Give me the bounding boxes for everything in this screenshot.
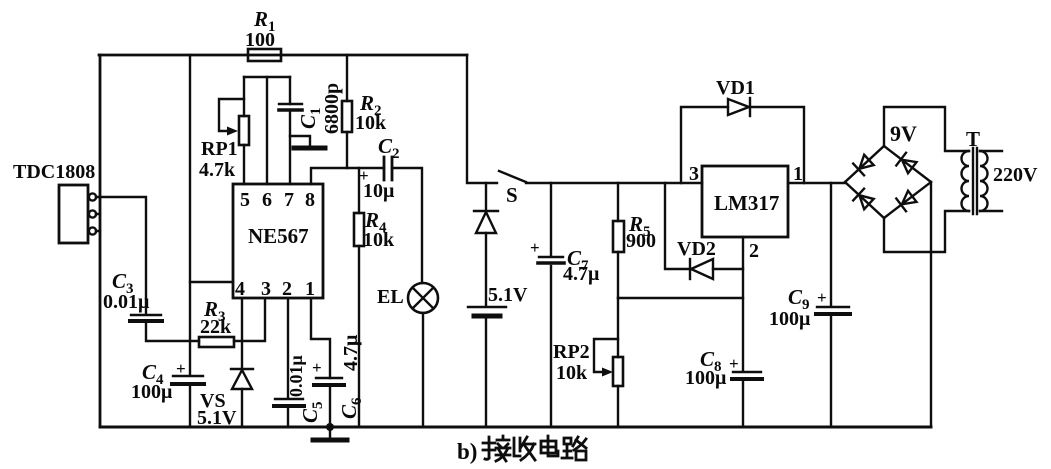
- wire LM317 output to bridge: [788, 182, 845, 184]
- svg-text:10k: 10k: [556, 362, 588, 384]
- caption hanzi shou: [514, 437, 535, 460]
- svg-text:+: +: [312, 358, 322, 377]
- capacitor C3: [131, 314, 161, 316]
- svg-text:4.7μ: 4.7μ: [340, 334, 362, 371]
- svg-text:100μ: 100μ: [131, 381, 173, 403]
- resistor R5: [617, 183, 619, 298]
- wire bridge top AC route: [884, 107, 969, 151]
- caption hanzi jie: [483, 436, 510, 461]
- bridge diode top-right: [896, 153, 917, 174]
- capacitor C1: [289, 77, 291, 184]
- bridge rectifier frame: [845, 146, 931, 218]
- wire left vertical rail: [99, 55, 102, 427]
- svg-text:10k: 10k: [355, 112, 387, 134]
- capacitor C6: [316, 377, 342, 379]
- wire TDC top pin to C3: [96, 197, 146, 313]
- svg-text:5: 5: [240, 189, 250, 211]
- svg-text:7: 7: [284, 189, 294, 211]
- wire second vertical branch: [189, 55, 191, 427]
- diode VD2: [665, 183, 743, 269]
- svg-text:10μ: 10μ: [363, 180, 395, 202]
- wire top supply rail: [99, 54, 467, 57]
- resistor R4: [358, 168, 360, 427]
- wire pin6 vertical: [266, 77, 268, 184]
- wire pin8 row: [311, 168, 384, 184]
- svg-text:C6: C6: [337, 397, 365, 419]
- resistor R1: [248, 49, 281, 61]
- battery 5.1V: [468, 306, 506, 308]
- wire pin5 vertical: [243, 77, 245, 184]
- wire R5 to pin2 row: [618, 297, 743, 299]
- svg-text:VD1: VD1: [716, 77, 755, 99]
- capacitor C9: [830, 183, 832, 427]
- ground pin7 stub: [290, 136, 310, 146]
- wire TDC1808 pin stubs: [96, 214, 100, 231]
- svg-text:RP1: RP1: [201, 138, 238, 160]
- svg-text:+: +: [176, 359, 186, 378]
- svg-text:6: 6: [262, 189, 272, 211]
- resistor R3: [199, 337, 234, 347]
- zener diode 5.1V branch: [474, 210, 498, 212]
- wire pin4 side lead: [190, 281, 233, 283]
- svg-text:3: 3: [689, 163, 699, 185]
- svg-text:5.1V: 5.1V: [488, 284, 528, 306]
- wire timing top link: [244, 76, 290, 78]
- svg-text:0.01μ: 0.01μ: [286, 355, 306, 397]
- wire pin2 LM317 vertical: [742, 237, 744, 371]
- bridge diode bottom-left: [853, 189, 874, 210]
- caption hanzi lu: [562, 437, 586, 460]
- svg-text:4.7μ: 4.7μ: [563, 263, 600, 285]
- wire R3 right to pin 3 of NE567: [234, 299, 265, 341]
- svg-text:1: 1: [305, 278, 315, 300]
- capacitor C8: [733, 371, 761, 373]
- switch S: [499, 171, 526, 182]
- capacitor C4: [173, 375, 203, 377]
- svg-text:C2: C2: [378, 134, 400, 162]
- svg-text:RP2: RP2: [553, 341, 590, 363]
- node main ground junction: [326, 423, 334, 431]
- lamp EL: [408, 283, 438, 313]
- svg-text:22k: 22k: [200, 316, 232, 338]
- svg-text:2: 2: [749, 240, 759, 262]
- svg-text:VD2: VD2: [677, 238, 716, 260]
- svg-text:4: 4: [235, 278, 245, 300]
- wire bridge DC minus: [930, 182, 932, 427]
- transducer TDC1808: [59, 185, 88, 243]
- bridge diode top-left: [853, 154, 874, 175]
- wire mid bus: [526, 182, 702, 184]
- svg-text:100μ: 100μ: [769, 308, 811, 330]
- svg-text:2: 2: [282, 278, 292, 300]
- svg-text:5.1V: 5.1V: [197, 407, 237, 429]
- bridge diode bottom-right: [896, 190, 917, 211]
- potentiometer RP2: [617, 298, 619, 427]
- svg-text:b): b): [457, 439, 477, 464]
- svg-text:0.01μ: 0.01μ: [103, 291, 150, 313]
- svg-text:T: T: [966, 127, 980, 151]
- svg-text:100: 100: [245, 29, 275, 51]
- svg-text:S: S: [506, 183, 518, 207]
- svg-text:LM317: LM317: [714, 191, 779, 215]
- wire pin1 jog: [311, 299, 330, 378]
- wire lamp to rail: [422, 313, 424, 427]
- wire bridge bottom AC route: [884, 211, 969, 252]
- svg-text:220V: 220V: [993, 164, 1038, 186]
- resistor R2: [346, 55, 348, 168]
- regulator LM317: [702, 166, 788, 237]
- capacitor C7: [550, 183, 552, 427]
- caption hanzi dian: [541, 436, 558, 456]
- op-amp U1 NE567: [233, 184, 323, 298]
- capacitor C5: [275, 398, 303, 400]
- wire pin2 vertical: [287, 299, 289, 398]
- svg-text:900: 900: [626, 230, 656, 252]
- svg-text:TDC1808: TDC1808: [13, 161, 95, 183]
- svg-text:3: 3: [261, 278, 271, 300]
- svg-text:1: 1: [793, 163, 803, 185]
- capacitor C2: [384, 157, 392, 180]
- svg-text:8: 8: [305, 189, 315, 211]
- wire right drop from rail: [467, 55, 497, 183]
- zener VS: [241, 299, 243, 427]
- svg-text:4.7k: 4.7k: [199, 159, 236, 181]
- wire C3 bottom to R3 row: [146, 323, 199, 341]
- svg-text:100μ: 100μ: [685, 367, 727, 389]
- transformer T: [962, 151, 969, 211]
- svg-text:NE567: NE567: [248, 224, 309, 248]
- svg-text:6800p: 6800p: [321, 83, 343, 134]
- svg-text:+: +: [817, 288, 827, 307]
- wire zener battery branch: [485, 183, 487, 211]
- svg-text:9V: 9V: [890, 121, 917, 146]
- svg-text:EL: EL: [377, 286, 404, 308]
- diode VD1: [681, 107, 804, 183]
- wire C2 to lamp: [392, 168, 422, 283]
- potentiometer RP1: [239, 116, 249, 145]
- svg-text:+: +: [729, 354, 739, 373]
- wire bottom ground rail: [100, 426, 931, 429]
- svg-text:10k: 10k: [363, 229, 395, 251]
- svg-text:+: +: [530, 238, 540, 257]
- ground: [329, 427, 331, 438]
